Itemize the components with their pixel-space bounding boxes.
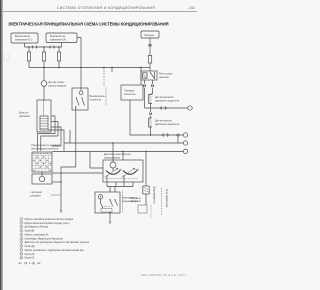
terminal circle C (183, 141, 187, 145)
inline connector on pressure lead (149, 112, 152, 115)
fuse F2 (42, 52, 45, 61)
control unit box (37, 100, 51, 132)
svg-text:давления хладагента: давления хладагента (155, 99, 180, 102)
battery fuse (148, 56, 151, 64)
svg-text:2: 2 (21, 223, 22, 225)
svg-text:вентилятора отопителя: вентилятора отопителя (32, 147, 59, 150)
junction rail-fuse3 (58, 67, 59, 68)
resistor arc right (123, 171, 137, 175)
svg-text:зажигания ON: зажигания ON (50, 38, 66, 41)
svg-text:Муфта с автоматическим контрол: Муфта с автоматическим контролем порядка (25, 218, 74, 221)
bus under ignition switches (25, 46, 62, 48)
svg-text:давления хладагента: давления хладагента (155, 123, 180, 126)
switch box ON (Выключатель зажигания ON) (46, 33, 77, 43)
svg-text:Кузов (Д): Кузов (Д) (25, 246, 35, 248)
fuse F3 lead (58, 47, 60, 52)
svg-text:ционера: ционера (159, 76, 169, 79)
svg-text:Кузов (Л): Кузов (Л) (25, 254, 35, 256)
svg-text:ратуры воздуха: ратуры воздуха (49, 84, 67, 87)
svg-text:зажигания ACC: зажигания ACC (15, 39, 33, 42)
dashed vertical module (161, 188, 163, 215)
wire table bottom to blower box (52, 172, 103, 174)
svg-text:11: 11 (20, 258, 22, 260)
dashed line right of A/C switch (122, 190, 124, 213)
page left gutter shadow (0, 0, 2, 290)
wire row y135 (130, 134, 183, 136)
svg-text:Двигатель СА для Европы, Модел: Двигатель СА для Европы, Моделей с Австр… (25, 241, 90, 244)
blower assembly feeds (113, 143, 123, 162)
terminal circle A (188, 106, 192, 110)
svg-text:9: 9 (21, 250, 22, 252)
thermo box drop (140, 68, 142, 86)
svg-text:КИА СПЕКТРА 96 Д.Х.Е. С13.1: КИА СПЕКТРА 96 Д.Х.Е. С13.1 (141, 273, 187, 277)
svg-text:3: 3 (21, 227, 22, 229)
junction bus-fuse3 (58, 46, 59, 47)
svg-text:7: 7 (21, 242, 22, 244)
svg-text:4: 4 (21, 231, 22, 233)
control unit inner block (40, 116, 48, 130)
svg-text:10: 10 (20, 254, 22, 256)
wire row y150.5 (53, 152, 184, 169)
svg-text:Разъем жгута: Разъем жгута (150, 205, 152, 218)
junction bus-fuse2 (43, 46, 44, 47)
svg-text:двигателя: двигателя (130, 201, 141, 203)
wire row y143 (64, 142, 183, 144)
junction rail-heater switch (80, 67, 81, 68)
fuse F1 lead (28, 47, 30, 52)
inline connector 1 (32, 46, 37, 49)
A/C switch box (95, 192, 120, 213)
A/C switch ground stub (109, 213, 111, 222)
fuse F1 (27, 52, 30, 61)
wire branch x70 (69, 130, 71, 143)
svg-text:Муфта с разъемом 6А: Муфта с разъемом 6А (25, 234, 49, 237)
junction resistor feed (122, 151, 123, 152)
thermo protector box (121, 85, 143, 100)
main power rail (29, 67, 150, 69)
svg-text:Батарея: Батарея (145, 34, 155, 37)
svg-text:Муфта смазочной коробки переда: Муфта смазочной коробки передач (усил.) (25, 222, 71, 225)
header rule (3, 10, 197, 13)
svg-text:Кузов (Е): Кузов (Е) (25, 231, 35, 233)
pressure switch low (149, 118, 152, 127)
svg-text:6: 6 (21, 238, 22, 240)
wire to terminal A (145, 107, 188, 109)
legend list (19, 218, 90, 265)
junction motor/ground (60, 181, 61, 182)
stair into table (38, 134, 62, 152)
connector strip dashed (103, 68, 105, 87)
junction rail-fuse2 (43, 67, 44, 68)
control unit outputs stair (48, 116, 64, 152)
svg-text:Кузов (С): Кузов (С) (25, 258, 35, 260)
A/C relay box (141, 71, 157, 80)
svg-text:Предохранитель: Предохранитель (153, 186, 155, 205)
resistor dashed link (105, 178, 138, 180)
terminal circle D (183, 149, 187, 153)
junction rail-harness strip (103, 67, 104, 68)
mode table grid (32, 155, 52, 168)
mode table outer (32, 152, 52, 172)
svg-text:Для Европы и Японии: Для Европы и Японии (25, 227, 49, 229)
link between rows (177, 135, 179, 143)
svg-text:1: 1 (21, 219, 22, 221)
junction bus-fuse1 (28, 46, 29, 47)
junction rail stub (111, 67, 112, 68)
resistor arc left (106, 171, 120, 175)
svg-text:отопителя: отопителя (90, 98, 102, 101)
terminal circle B (183, 133, 187, 137)
ground label leader (51, 194, 61, 196)
wire thermo switch down to ground line (61, 110, 76, 211)
sensor circle component (43, 68, 45, 81)
wire motor box to ground line (52, 181, 61, 183)
svg-text:8: 8 (21, 246, 22, 248)
inline connector 2 (50, 46, 55, 49)
pressure switch high (149, 95, 152, 104)
svg-text:А1 (Ч) и (Д) А2: А1 (Ч) и (Д) А2 (19, 261, 41, 265)
svg-text:Блок реле: Блок реле (130, 198, 142, 200)
svg-text:Муфты для Европы с гидрорулем,: Муфты для Европы с гидрорулем, автоматич… (25, 249, 85, 252)
svg-text:ЭЛЕКТРИЧЕСКАЯ ПРИНЦИПИАЛЬНАЯ С: ЭЛЕКТРИЧЕСКАЯ ПРИНЦИПИАЛЬНАЯ СХЕМА СИСТЕ… (8, 22, 169, 27)
fan thermo switch box (72, 88, 88, 110)
relay output leads with connectors (144, 80, 146, 108)
blower motor box (32, 174, 52, 184)
battery box (141, 31, 159, 38)
battery lead down (149, 38, 151, 56)
svg-text:кондиционера: кондиционера (104, 156, 121, 159)
small box lower right (138, 205, 147, 213)
junction blower feed (112, 142, 113, 143)
wire ON box right to thermo-switch drop (77, 38, 81, 68)
ground symbol left (60, 211, 63, 212)
switch box ACC (Выключатель зажигания ACC) (11, 33, 38, 43)
svg-text:Блок управления: Блок управления (165, 189, 167, 208)
svg-text:равления: равления (19, 115, 30, 118)
rail stub x112 (111, 68, 113, 73)
wire ON box down to bus (61, 43, 63, 48)
svg-text:Соединение жгутов: Соединение жгутов (105, 87, 107, 105)
junction rail-thermo protector (140, 67, 141, 68)
svg-text:Кузов Евро, Модели для Австрал: Кузов Евро, Модели для Австралии (25, 238, 64, 241)
wire ACC box down to bus (24, 43, 26, 47)
fuse leads to main rail (29, 61, 59, 68)
ground symbol right (109, 222, 112, 223)
A/C switch contacts (101, 200, 118, 208)
thermo protector bottom lead (129, 100, 131, 135)
svg-text:231: 231 (189, 6, 195, 10)
fuse F2 lead (43, 47, 45, 52)
thermo switch contacts (77, 97, 85, 106)
mode table dots (33, 153, 51, 171)
blower assembly output leads (107, 175, 133, 187)
battery lead connector (149, 44, 152, 47)
svg-text:соединен: соединен (30, 194, 41, 197)
svg-text:5: 5 (21, 234, 22, 236)
left margin faint mark (4, 54, 9, 60)
blower motor circle (39, 176, 44, 181)
svg-text:СИСТЕМА ОТОПЛЕНИЯ И КОНДИЦИОНИ: СИСТЕМА ОТОПЛЕНИЯ И КОНДИЦИОНИРОВАНИЯ (57, 6, 155, 10)
small relay component right (145, 152, 147, 187)
fuse F3 (57, 52, 60, 61)
blower assembly box (103, 160, 143, 182)
svg-text:ключатель: ключатель (124, 93, 137, 96)
